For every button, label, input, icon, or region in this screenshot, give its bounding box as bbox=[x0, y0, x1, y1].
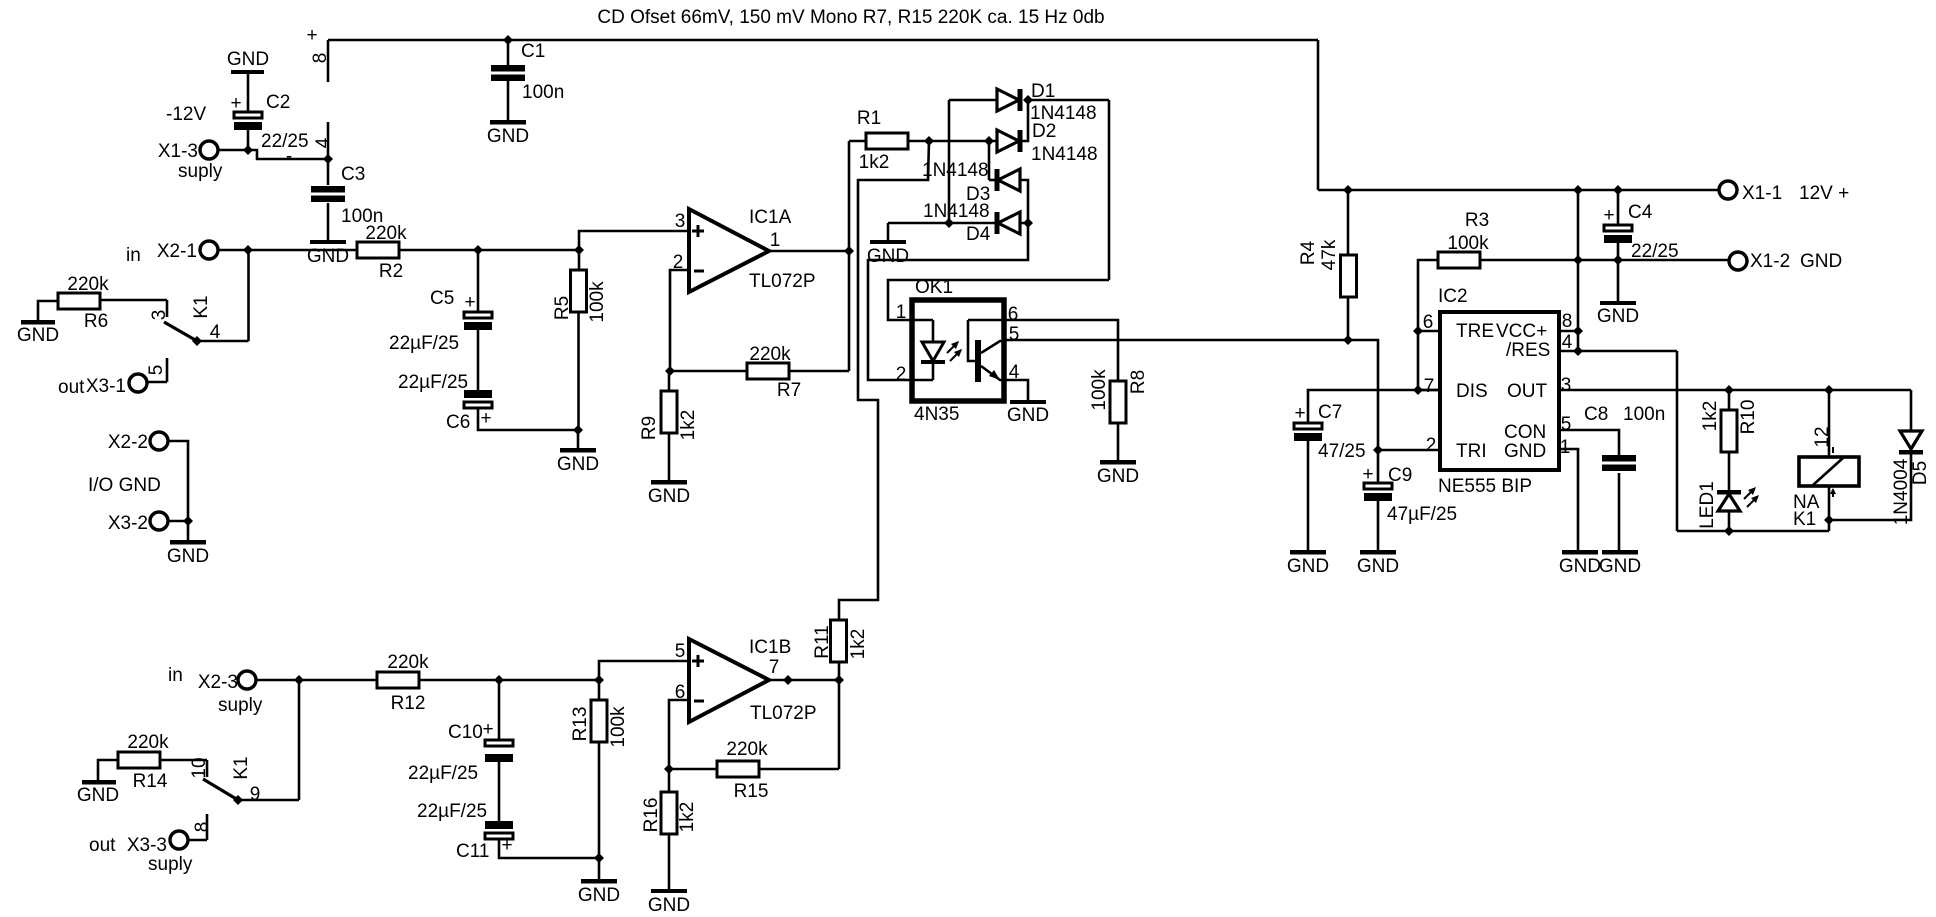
svg-text:2: 2 bbox=[1426, 435, 1437, 456]
svg-text:4: 4 bbox=[210, 322, 221, 343]
svg-text:220k: 220k bbox=[749, 344, 791, 365]
svg-text:suply: suply bbox=[218, 695, 263, 716]
svg-text:C11: C11 bbox=[456, 841, 489, 862]
svg-text:1k2: 1k2 bbox=[859, 152, 890, 173]
svg-text:R1: R1 bbox=[857, 108, 881, 129]
svg-text:GND: GND bbox=[227, 49, 269, 70]
svg-text:TRI: TRI bbox=[1456, 441, 1487, 462]
svg-text:K1: K1 bbox=[191, 295, 212, 318]
svg-text:100k: 100k bbox=[587, 281, 608, 323]
svg-text:X2-3: X2-3 bbox=[198, 672, 238, 693]
svg-text:R5: R5 bbox=[552, 296, 573, 320]
svg-text:C6: C6 bbox=[446, 412, 470, 433]
svg-text:+: + bbox=[230, 93, 241, 114]
svg-text:100k: 100k bbox=[1447, 233, 1489, 254]
svg-text:-: - bbox=[286, 146, 292, 167]
svg-text:out: out bbox=[58, 377, 85, 398]
svg-text:NE555 BIP: NE555 BIP bbox=[1438, 476, 1532, 497]
svg-text:GND: GND bbox=[1559, 556, 1601, 577]
svg-text:47µF/25: 47µF/25 bbox=[1387, 504, 1457, 525]
svg-text:GND: GND bbox=[1800, 251, 1842, 272]
svg-text:GND: GND bbox=[1504, 441, 1546, 462]
svg-text:VCC+: VCC+ bbox=[1496, 321, 1547, 342]
svg-text:+: + bbox=[501, 835, 512, 856]
svg-text:X3-1: X3-1 bbox=[86, 376, 126, 397]
svg-text:GND: GND bbox=[167, 546, 209, 567]
svg-text:suply: suply bbox=[148, 854, 193, 875]
svg-text:47/25: 47/25 bbox=[1318, 441, 1366, 462]
svg-text:22µF/25: 22µF/25 bbox=[389, 333, 459, 354]
svg-text:1k2: 1k2 bbox=[1700, 401, 1721, 432]
svg-text:1N4148: 1N4148 bbox=[1030, 103, 1097, 124]
svg-text:D5: D5 bbox=[1910, 461, 1931, 485]
svg-text:C1: C1 bbox=[521, 41, 545, 62]
svg-text:12V +: 12V + bbox=[1799, 183, 1849, 204]
svg-text:C5: C5 bbox=[430, 288, 454, 309]
svg-text:4: 4 bbox=[313, 137, 334, 148]
svg-text:220k: 220k bbox=[127, 732, 169, 753]
svg-text:+: + bbox=[480, 408, 491, 429]
svg-text:R16: R16 bbox=[641, 798, 662, 833]
svg-text:12: 12 bbox=[1812, 426, 1833, 447]
svg-text:8: 8 bbox=[192, 822, 213, 833]
svg-text:1k2: 1k2 bbox=[848, 629, 869, 660]
svg-text:-12V: -12V bbox=[166, 104, 206, 125]
svg-text:IC1B: IC1B bbox=[749, 637, 791, 658]
svg-text:IC1A: IC1A bbox=[749, 207, 792, 228]
svg-text:GND: GND bbox=[1097, 466, 1139, 487]
svg-text:GND: GND bbox=[487, 126, 529, 147]
svg-text:5: 5 bbox=[1009, 324, 1020, 345]
svg-text:in: in bbox=[168, 665, 183, 686]
svg-text:220k: 220k bbox=[387, 652, 429, 673]
svg-text:+: + bbox=[1362, 464, 1373, 485]
svg-text:R8: R8 bbox=[1128, 370, 1149, 394]
svg-text:TL072P: TL072P bbox=[749, 271, 816, 292]
svg-text:3: 3 bbox=[1561, 375, 1572, 396]
svg-text:R2: R2 bbox=[379, 261, 403, 282]
svg-text:X1-3: X1-3 bbox=[158, 141, 198, 162]
svg-text:100n: 100n bbox=[522, 82, 564, 103]
svg-text:R15: R15 bbox=[734, 781, 769, 802]
svg-text:100k: 100k bbox=[1089, 369, 1110, 411]
svg-text:GND: GND bbox=[557, 454, 599, 475]
svg-text:R4: R4 bbox=[1298, 240, 1319, 265]
svg-text:R6: R6 bbox=[84, 311, 108, 332]
svg-text:47k: 47k bbox=[1319, 239, 1340, 270]
svg-text:+: + bbox=[1294, 403, 1305, 424]
svg-text:CON: CON bbox=[1504, 422, 1546, 443]
svg-text:8: 8 bbox=[310, 53, 331, 64]
svg-text:4N35: 4N35 bbox=[914, 404, 959, 425]
svg-text:5: 5 bbox=[675, 641, 686, 662]
svg-text:C10: C10 bbox=[448, 722, 483, 743]
svg-text:LED1: LED1 bbox=[1697, 481, 1718, 529]
svg-text:C7: C7 bbox=[1318, 402, 1342, 423]
svg-text:22µF/25: 22µF/25 bbox=[398, 372, 468, 393]
svg-text:suply: suply bbox=[178, 161, 223, 182]
svg-text:1k2: 1k2 bbox=[677, 802, 698, 833]
svg-text:220k: 220k bbox=[726, 739, 768, 760]
svg-text:1N4148: 1N4148 bbox=[922, 160, 989, 181]
svg-text:GND: GND bbox=[1597, 306, 1639, 327]
svg-text:1N4148: 1N4148 bbox=[923, 201, 990, 222]
svg-text:220k: 220k bbox=[67, 274, 109, 295]
svg-text:GND: GND bbox=[1357, 556, 1399, 577]
svg-text:R10: R10 bbox=[1738, 400, 1759, 435]
svg-text:100k: 100k bbox=[608, 706, 629, 748]
svg-text:C4: C4 bbox=[1628, 202, 1653, 223]
svg-text:+: + bbox=[306, 25, 317, 46]
svg-text:22/25: 22/25 bbox=[1631, 241, 1679, 262]
svg-text:22µF/25: 22µF/25 bbox=[408, 763, 478, 784]
svg-text:IC2: IC2 bbox=[1438, 286, 1468, 307]
svg-text:R3: R3 bbox=[1465, 210, 1489, 231]
svg-text:GND: GND bbox=[1287, 556, 1329, 577]
svg-text:1: 1 bbox=[1560, 437, 1571, 458]
svg-text:+: + bbox=[1603, 205, 1614, 226]
svg-text:X2-1: X2-1 bbox=[157, 241, 197, 262]
svg-text:R12: R12 bbox=[391, 693, 426, 714]
svg-text:X2-2: X2-2 bbox=[108, 432, 148, 453]
svg-text:R11: R11 bbox=[812, 625, 833, 658]
svg-text:C3: C3 bbox=[341, 164, 365, 185]
svg-text:1N4148: 1N4148 bbox=[1031, 144, 1098, 165]
svg-text:DIS: DIS bbox=[1456, 381, 1488, 402]
svg-text:1: 1 bbox=[770, 230, 781, 251]
svg-text:GND: GND bbox=[1599, 556, 1641, 577]
svg-text:GND: GND bbox=[867, 246, 909, 267]
svg-text:C2: C2 bbox=[266, 92, 290, 113]
svg-text:in: in bbox=[126, 245, 141, 266]
svg-text:C9: C9 bbox=[1388, 465, 1412, 486]
svg-text:I/O GND: I/O GND bbox=[88, 475, 161, 496]
svg-text:X3-2: X3-2 bbox=[108, 513, 148, 534]
svg-text:1k2: 1k2 bbox=[678, 410, 699, 441]
svg-text:5: 5 bbox=[146, 365, 167, 376]
svg-text:5: 5 bbox=[1561, 414, 1572, 435]
svg-text:22µF/25: 22µF/25 bbox=[417, 801, 487, 822]
svg-text:GND: GND bbox=[1007, 405, 1049, 426]
svg-text:/RES: /RES bbox=[1506, 340, 1550, 361]
svg-text:D2: D2 bbox=[1032, 121, 1056, 142]
svg-text:R13: R13 bbox=[570, 707, 591, 742]
svg-text:R9: R9 bbox=[639, 416, 660, 440]
svg-text:TRE: TRE bbox=[1456, 321, 1494, 342]
svg-text:22/25: 22/25 bbox=[261, 131, 309, 152]
svg-text:GND: GND bbox=[578, 885, 620, 906]
svg-text:K1: K1 bbox=[231, 756, 252, 779]
svg-text:R7: R7 bbox=[777, 380, 801, 401]
svg-text:1N4004: 1N4004 bbox=[1891, 458, 1912, 525]
svg-text:K1: K1 bbox=[1793, 509, 1816, 530]
svg-text:2: 2 bbox=[896, 364, 907, 385]
svg-text:7: 7 bbox=[1424, 376, 1435, 397]
svg-text:D4: D4 bbox=[966, 224, 991, 245]
svg-text:TL072P: TL072P bbox=[750, 703, 817, 724]
svg-text:GND: GND bbox=[648, 486, 690, 507]
svg-text:CD Ofset 66mV, 150 mV Mono R7,: CD Ofset 66mV, 150 mV Mono R7, R15 220K … bbox=[597, 7, 1104, 28]
svg-text:C8: C8 bbox=[1584, 404, 1608, 425]
svg-text:7: 7 bbox=[769, 657, 780, 678]
svg-text:GND: GND bbox=[648, 895, 690, 916]
svg-text:10: 10 bbox=[189, 757, 210, 778]
svg-text:9: 9 bbox=[250, 784, 261, 805]
svg-text:3: 3 bbox=[675, 211, 686, 232]
svg-text:X1-1: X1-1 bbox=[1742, 183, 1782, 204]
svg-text:OUT: OUT bbox=[1507, 381, 1548, 402]
svg-text:+: + bbox=[464, 292, 475, 313]
svg-text:out: out bbox=[89, 835, 116, 856]
svg-text:3: 3 bbox=[149, 310, 170, 321]
svg-text:GND: GND bbox=[77, 785, 119, 806]
svg-text:R14: R14 bbox=[133, 771, 168, 792]
svg-text:220k: 220k bbox=[365, 223, 407, 244]
svg-text:8: 8 bbox=[1562, 311, 1573, 332]
svg-text:X1-2: X1-2 bbox=[1750, 251, 1790, 272]
svg-text:GND: GND bbox=[17, 325, 59, 346]
svg-text:100n: 100n bbox=[1623, 404, 1665, 425]
svg-text:+: + bbox=[482, 719, 493, 740]
svg-text:X3-3: X3-3 bbox=[127, 835, 167, 856]
svg-text:6: 6 bbox=[1008, 304, 1019, 325]
